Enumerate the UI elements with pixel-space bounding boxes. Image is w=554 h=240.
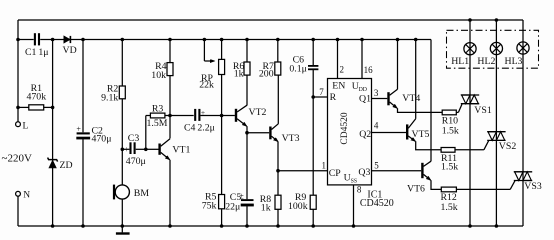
svg-text:1k: 1k (234, 68, 244, 79)
wire VT3 emitter down (277, 142, 279, 171)
svg-text:CP: CP (329, 168, 342, 179)
svg-text:4: 4 (374, 121, 379, 131)
svg-text:±: ± (239, 191, 244, 200)
wire VT2 emitter to node (246, 126, 248, 133)
resistor R9 (310, 195, 316, 209)
ground (121, 226, 123, 232)
transistor VT3 (269, 127, 271, 140)
microphone BM (115, 185, 129, 199)
wire pin7 R (313, 96, 327, 98)
svg-text:1k: 1k (261, 202, 271, 213)
svg-text:C1 1μ: C1 1μ (25, 47, 49, 58)
resistor R5 (219, 195, 225, 209)
svg-text:75k: 75k (202, 201, 217, 212)
wire R4 bottom to VT1 collector (169, 76, 171, 139)
wire mic branch x=122.3 (121, 40, 123, 87)
node R2-C3 (121, 148, 125, 152)
svg-text:+: + (201, 108, 205, 117)
terminal N (16, 191, 21, 196)
svg-text:HL3: HL3 (505, 56, 523, 67)
svg-text:VT6: VT6 (407, 183, 425, 194)
svg-text:L: L (23, 121, 29, 131)
wire VT1 emitter to bottom rail (169, 160, 171, 226)
svg-text:R: R (330, 92, 337, 103)
wire VT5 emitter to R11 (416, 141, 441, 150)
svg-text:VT4: VT4 (402, 93, 420, 104)
svg-text:DD: DD (359, 87, 367, 93)
svg-text:16: 16 (364, 65, 374, 75)
node top rail HL1 (468, 18, 472, 22)
svg-text:C3: C3 (128, 133, 140, 144)
wire VT4 collector to bus (397, 40, 399, 90)
resistor R4 (169, 40, 171, 63)
svg-text:Q1: Q1 (359, 94, 371, 105)
svg-text:VT1: VT1 (172, 145, 190, 156)
svg-text:EN: EN (332, 81, 345, 92)
svg-text:0.1μ: 0.1μ (289, 63, 307, 74)
resistor R3 (145, 116, 147, 150)
terminal L (16, 122, 21, 127)
svg-text:VD: VD (63, 45, 77, 56)
svg-text:HL2: HL2 (477, 56, 495, 67)
svg-text:1.5k: 1.5k (441, 202, 458, 213)
svg-text:10k: 10k (151, 70, 166, 81)
capacitor C6 (312, 40, 314, 66)
svg-text:22k: 22k (199, 79, 214, 90)
capacitor C5 (246, 133, 248, 200)
wire VT6 collector to bus corner (430, 40, 432, 162)
wire HL2/VS2 vertical (495, 20, 497, 226)
svg-text:5: 5 (374, 160, 379, 170)
resistor R8 (277, 171, 279, 196)
wire supply bus (18, 39, 34, 41)
node C1-VD (51, 38, 55, 42)
node ZD bottom rail (51, 224, 55, 228)
capacitor C3 (122, 148, 129, 150)
svg-text:VT2: VT2 (249, 107, 267, 118)
wire VS1 gate (458, 104, 462, 112)
wire C2 minus to bottom rail (82, 139, 84, 226)
transistor VT1 (158, 144, 160, 155)
svg-text:ZD: ZD (60, 160, 73, 171)
wire RP bottom through C4 node to R5 (221, 75, 223, 195)
svg-text:1.5k: 1.5k (442, 126, 459, 137)
svg-text:VS3: VS3 (524, 181, 542, 192)
node rail VS2 (495, 224, 499, 228)
svg-text:VT3: VT3 (282, 133, 300, 144)
wire VT6 emitter to R12 (431, 180, 441, 189)
node C4-RP-R5-VT2 base (220, 114, 224, 118)
node C3-R3-VT1 base (144, 148, 148, 152)
svg-text:N: N (23, 190, 30, 200)
transistor VT6 (421, 163, 423, 178)
svg-text:22μ: 22μ (225, 202, 240, 213)
lamp HL3 (505, 42, 530, 67)
svg-text:1: 1 (322, 161, 327, 171)
capacitor C4 (194, 109, 196, 121)
diode VD (64, 36, 70, 43)
wire VS2 gate (484, 141, 489, 150)
wire VT4 emitter to R10 (398, 108, 443, 112)
wire bottom rail (18, 225, 523, 227)
capacitor C1 (34, 33, 36, 45)
transistor VT4 (387, 92, 389, 105)
wire pin2 EN to bus (337, 40, 339, 79)
svg-text:R3: R3 (152, 103, 164, 114)
svg-text:VS1: VS1 (474, 105, 492, 116)
svg-text:CD4520: CD4520 (360, 198, 394, 209)
lamp HL1 (451, 43, 476, 68)
wire pin5 Q3 to VT6 (372, 170, 422, 172)
node top rail HL2 (495, 18, 499, 22)
resistor R7 (277, 75, 279, 124)
lamp HL2 (477, 42, 502, 67)
svg-text:1.5k: 1.5k (441, 161, 458, 172)
resistor R12 (441, 187, 456, 192)
node VD-C2 (81, 38, 85, 42)
wire VT5 collector to bus (415, 40, 417, 119)
capacitor C2 (82, 40, 84, 133)
wire top rail L line (18, 19, 523, 21)
wire pin8 USS to ground rail (353, 185, 355, 226)
svg-text:1.5M: 1.5M (147, 118, 168, 129)
resistor R1 (18, 106, 29, 108)
op IC1 CD4520 box (328, 79, 372, 185)
node rail VS1 (468, 224, 472, 228)
transistor VT2 (235, 109, 237, 122)
wire pin4 Q2 to VT5 (372, 132, 407, 134)
thyristor VS3 (514, 172, 542, 192)
thyristor VS2 (487, 132, 516, 153)
wire pin3 Q1 to VT4 (372, 98, 388, 100)
resistor R10 (442, 110, 456, 115)
wire R2 bottom to BM (121, 99, 123, 185)
transistor VT5 (406, 124, 408, 139)
svg-text:100k: 100k (288, 201, 308, 212)
svg-text:200: 200 (259, 69, 274, 80)
wire N terminal to bottom rail (17, 196, 19, 226)
svg-text:9.1k: 9.1k (101, 93, 118, 104)
wire pin16 UDD to bus (361, 40, 363, 79)
svg-text:Q2: Q2 (359, 129, 371, 140)
svg-text:470k: 470k (27, 92, 47, 103)
wire x=52.6 vertical (R1 right / ZD branch) (52, 40, 54, 227)
svg-text:8: 8 (357, 184, 362, 194)
wire CP clock line to IC pin1 (278, 170, 328, 172)
svg-text:~220V: ~220V (2, 152, 32, 164)
potentiometer RP (221, 40, 223, 60)
svg-text:+: + (125, 145, 130, 154)
lamp group dashed box (447, 30, 539, 68)
svg-text:Q3: Q3 (358, 167, 370, 178)
zener diode ZD (49, 160, 56, 168)
node VT3e-R8-CP (276, 169, 280, 173)
wire HL1/VS1 vertical (469, 20, 471, 226)
wire C6 bottom through R node to R9 (312, 69, 314, 195)
svg-text:470μ: 470μ (92, 133, 112, 144)
wire left vertical from top rail to L terminal (17, 20, 19, 122)
node R3-VT1 collector (168, 114, 172, 118)
wire VT2 emitter node to VT3 base (247, 132, 269, 134)
resistor R11 (441, 148, 455, 153)
wire HL3/VS3 vertical (522, 20, 524, 226)
svg-text:VS2: VS2 (499, 141, 517, 152)
thyristor VS1 (461, 95, 492, 116)
svg-text:HL1: HL1 (451, 56, 469, 67)
node pin7 (311, 95, 315, 99)
svg-text:C4 2.2μ: C4 2.2μ (184, 123, 215, 134)
svg-text:+: + (76, 125, 81, 134)
svg-text:2: 2 (340, 65, 345, 75)
svg-text:3: 3 (374, 88, 379, 98)
svg-text:VT5: VT5 (412, 129, 430, 140)
svg-text:BM: BM (134, 188, 150, 199)
wire VS3 gate (510, 181, 515, 190)
resistor R6 (246, 75, 248, 105)
svg-text:CD4520: CD4520 (340, 112, 350, 144)
svg-text:7: 7 (319, 87, 324, 97)
resistor R2 (119, 86, 125, 99)
svg-text:470μ: 470μ (126, 156, 146, 167)
node VT2e-VT3b-C5 (245, 131, 249, 135)
node bus-left (16, 38, 20, 42)
